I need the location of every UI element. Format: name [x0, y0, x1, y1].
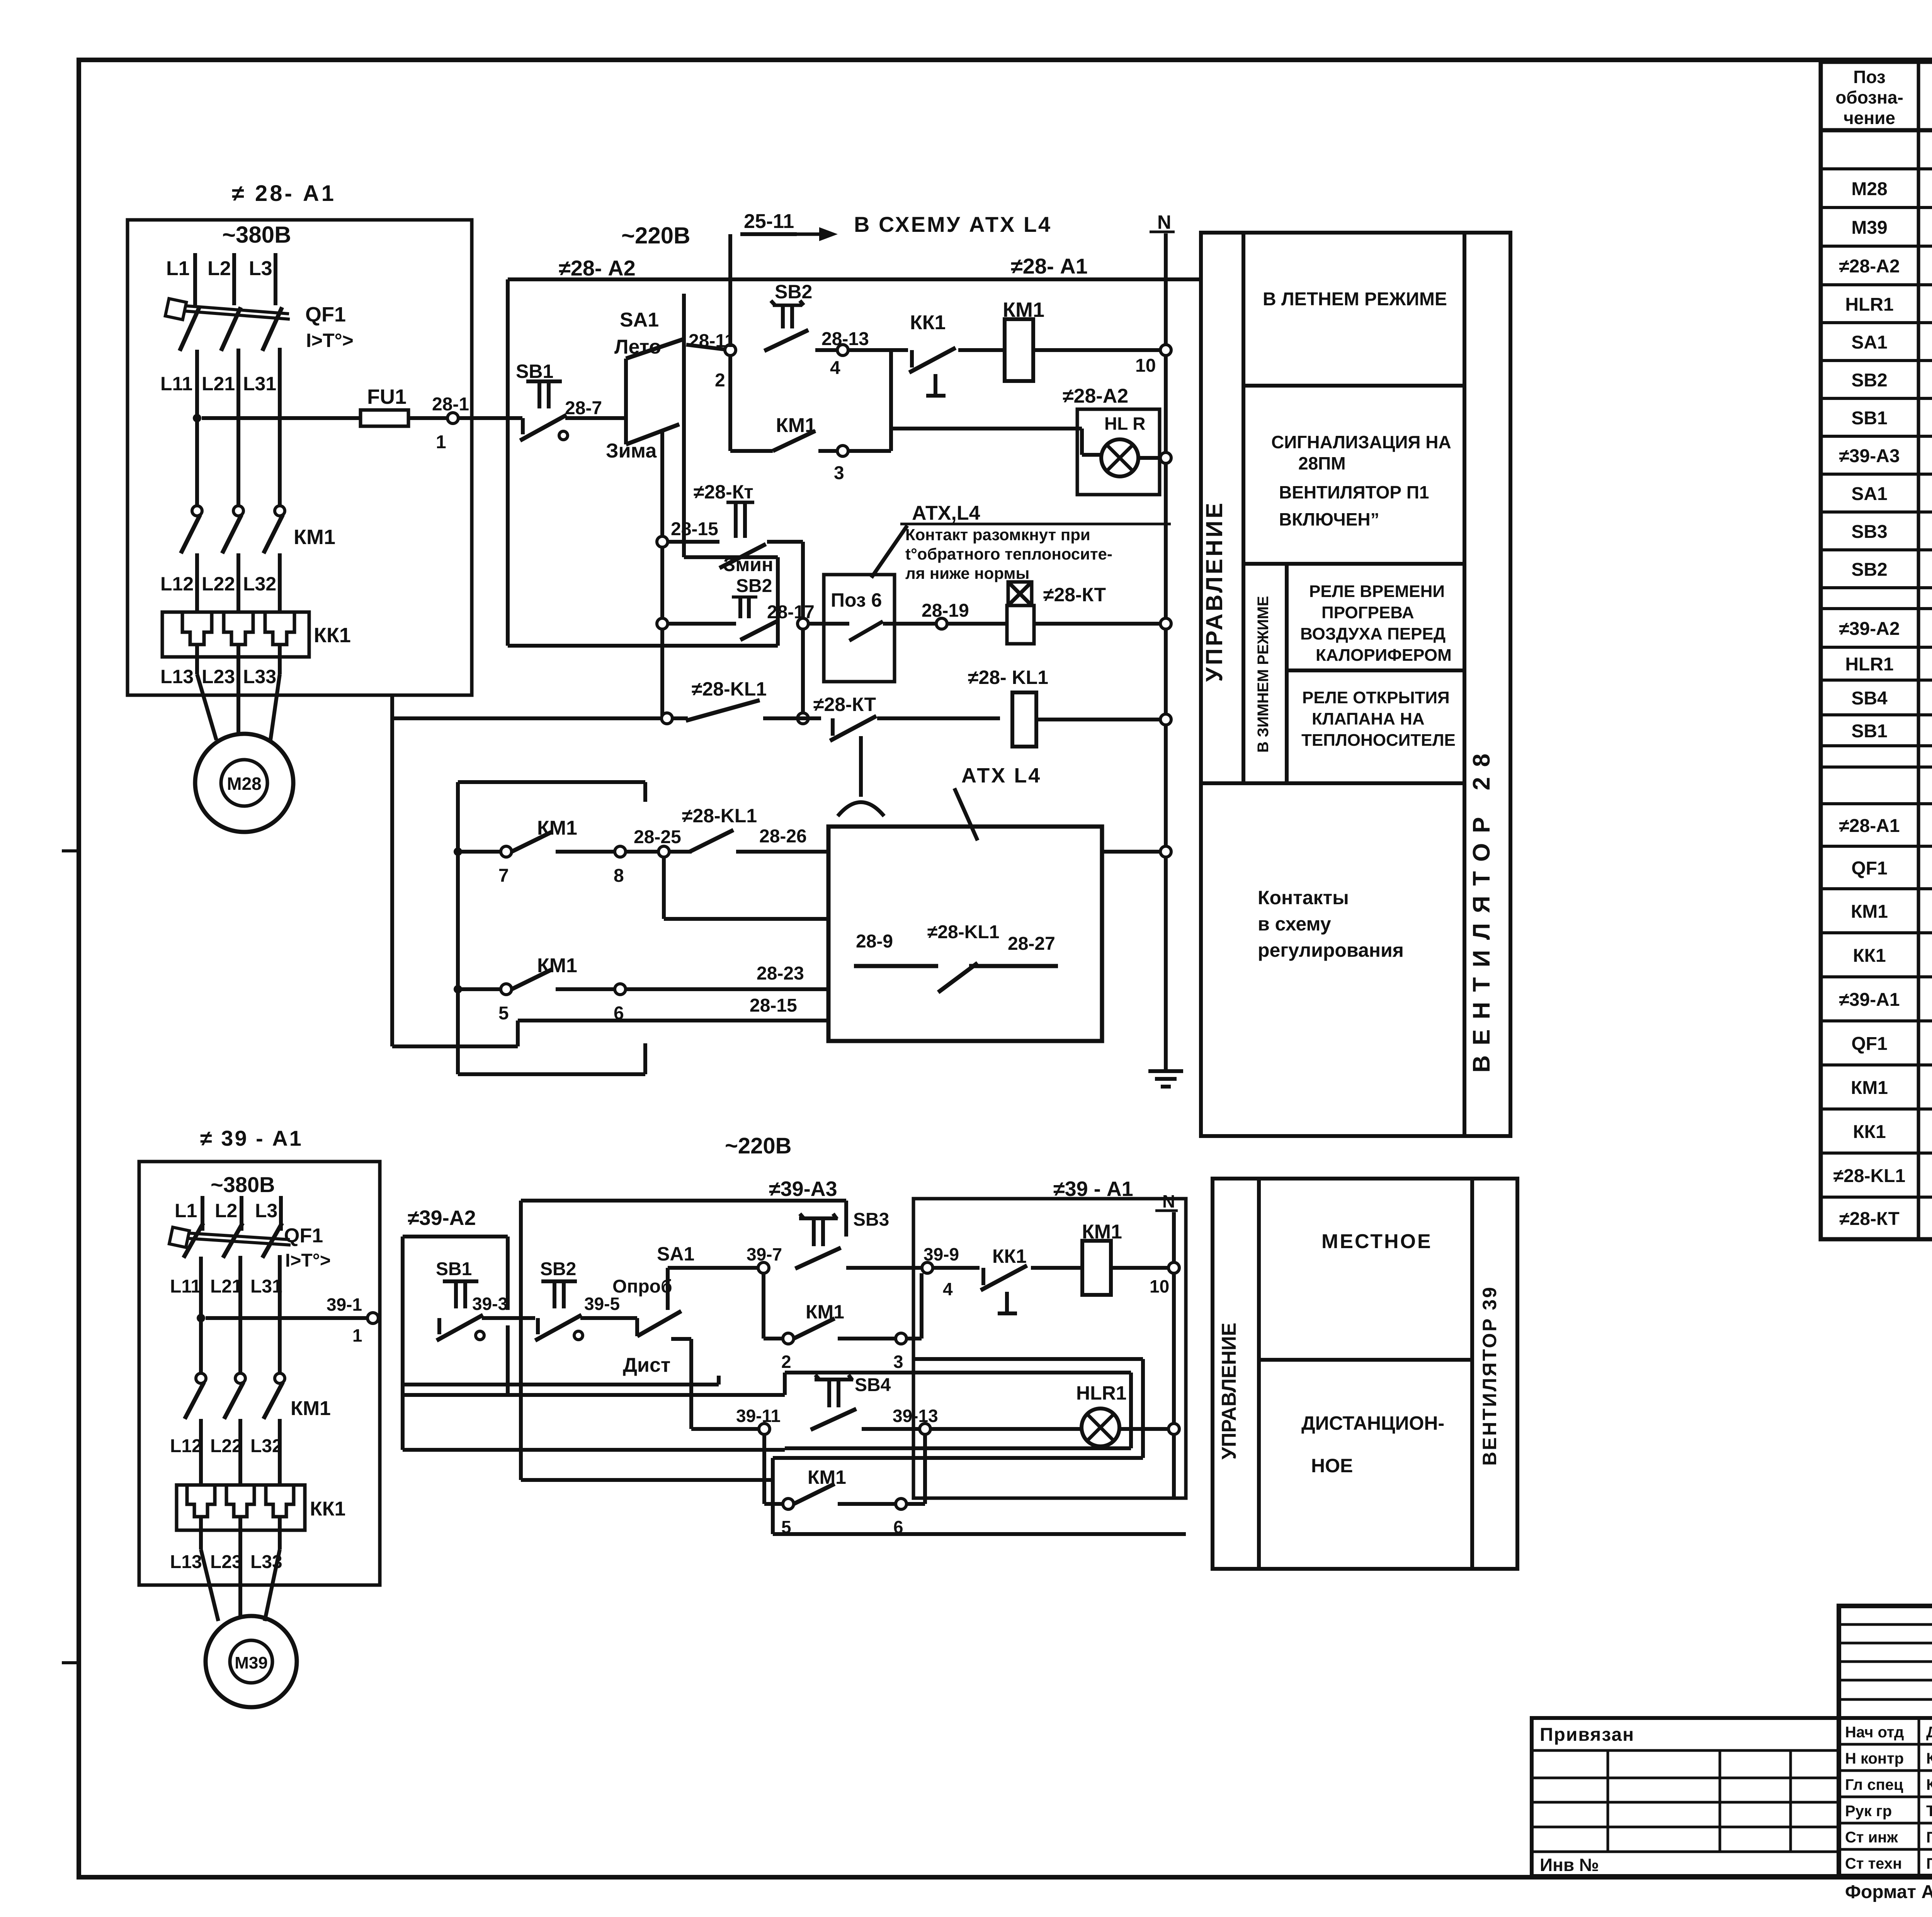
- svg-text:КК1: КК1: [310, 1498, 345, 1520]
- svg-text:ВЕНТИЛЯТОР 39: ВЕНТИЛЯТОР 39: [1479, 1286, 1500, 1466]
- motor M39: [201, 1530, 297, 1707]
- pushbutton SB4 start: [811, 1375, 939, 1430]
- thermal contact KK1 aux: [848, 311, 1005, 396]
- rail 39-11: [691, 1406, 781, 1434]
- svg-text:В СХЕМУ АТХ L4: В СХЕМУ АТХ L4: [854, 212, 1052, 236]
- label #39-A2: [408, 1206, 476, 1230]
- svg-text:КК1: КК1: [1853, 946, 1886, 966]
- svg-text:L11: L11: [160, 373, 192, 395]
- svg-text:≠28-KL1: ≠28-KL1: [682, 805, 757, 827]
- svg-text:L23: L23: [210, 1552, 242, 1572]
- note contact open text: [900, 524, 1171, 582]
- svg-text:28-15: 28-15: [750, 995, 797, 1016]
- svg-text:SB2: SB2: [736, 576, 772, 596]
- enclosure box #28-A1: [128, 220, 472, 695]
- svg-text:≠28-КТ: ≠28-КТ: [813, 694, 876, 715]
- svg-text:Ст инж: Ст инж: [1845, 1829, 1898, 1846]
- lamp box #28-A2: [1063, 385, 1160, 495]
- svg-text:КК1: КК1: [1853, 1122, 1886, 1142]
- svg-text:УПРАВЛЕНИЕ: УПРАВЛЕНИЕ: [1201, 501, 1227, 682]
- label #28-A1 control: [1011, 254, 1088, 278]
- svg-text:39-3: 39-3: [472, 1294, 508, 1314]
- N neutral line: [1164, 233, 1168, 1071]
- block label #28-A1: [232, 181, 336, 206]
- svg-text:28-13: 28-13: [821, 329, 869, 349]
- node 28 feed tap: [193, 414, 201, 422]
- svg-text:Рук гр: Рук гр: [1845, 1803, 1892, 1820]
- svg-text:М28: М28: [1851, 179, 1887, 199]
- svg-text:QF1: QF1: [1851, 858, 1887, 879]
- svg-text:М39: М39: [235, 1653, 268, 1672]
- selector SA1 Leto-Zima: [606, 309, 730, 542]
- svg-text:Ст техн: Ст техн: [1845, 1855, 1902, 1872]
- svg-text:Инв №: Инв №: [1540, 1855, 1599, 1875]
- svg-text:SA1: SA1: [620, 309, 659, 331]
- contact #28-KL1 in ATX: [854, 922, 1058, 992]
- svg-text:28-9: 28-9: [856, 931, 893, 952]
- svg-text:39-1: 39-1: [327, 1294, 362, 1315]
- svg-text:L11: L11: [170, 1276, 201, 1297]
- svg-text:SB2: SB2: [540, 1259, 576, 1279]
- svg-text:КК1: КК1: [910, 311, 946, 334]
- svg-text:≠39-А1: ≠39-А1: [1839, 990, 1900, 1010]
- svg-text:28ПМ: 28ПМ: [1298, 453, 1346, 473]
- title block grid: [1839, 1606, 1932, 1876]
- svg-text:чение: чение: [1844, 108, 1895, 128]
- svg-text:L22: L22: [210, 1436, 242, 1456]
- thermal contact KK1 lower: [933, 1245, 1082, 1313]
- aux box lower: [773, 1458, 1186, 1534]
- wire 28-25 drop: [664, 857, 828, 919]
- svg-text:≠28-А1: ≠28-А1: [1839, 816, 1900, 836]
- svg-text:РЕЛЕ ВРЕМЕНИ: РЕЛЕ ВРЕМЕНИ: [1309, 582, 1445, 601]
- svg-text:L12: L12: [160, 573, 194, 595]
- box #39-A2: [403, 1237, 785, 1450]
- svg-text:ВЕНТИЛЯТОР 28: ВЕНТИЛЯТОР 28: [1468, 743, 1495, 1073]
- svg-text:КМ1: КМ1: [294, 526, 335, 549]
- svg-text:≠28- KL1: ≠28- KL1: [968, 667, 1048, 688]
- svg-text:39-11: 39-11: [736, 1406, 781, 1426]
- svg-text:Н контр: Н контр: [1845, 1750, 1904, 1767]
- svg-text:Гл спец: Гл спец: [1845, 1776, 1903, 1793]
- svg-text:L1: L1: [166, 257, 190, 280]
- mode box ventilator 39: [1213, 1179, 1517, 1569]
- svg-text:Контакт разомкнут при: Контакт разомкнут при: [905, 526, 1090, 544]
- svg-text:28-23: 28-23: [757, 963, 804, 984]
- svg-text:І>T°>: І>T°>: [285, 1250, 331, 1271]
- svg-text:КМ1: КМ1: [1851, 902, 1888, 922]
- svg-text:SB2: SB2: [775, 281, 812, 303]
- node 39 feed tap: [197, 1314, 367, 1322]
- mode texts 39: [1218, 1230, 1500, 1476]
- pushbutton SB2 stop lower: [535, 1259, 629, 1340]
- svg-text:HL R: HL R: [1104, 413, 1146, 434]
- svg-text:HLR1: HLR1: [1845, 294, 1893, 315]
- node 39-13: [893, 1406, 938, 1434]
- svg-text:28-11: 28-11: [689, 331, 735, 351]
- svg-text:28-27: 28-27: [1008, 934, 1055, 954]
- svg-text:L13: L13: [170, 1552, 202, 1572]
- svg-text:39-7: 39-7: [747, 1244, 782, 1264]
- svg-text:Полшкова: Полшкова: [1926, 1829, 1932, 1846]
- contact KM1 selfhold lower: [764, 1273, 922, 1372]
- coil KM1 lower: [1082, 1221, 1168, 1295]
- svg-text:КЛАПАНА НА: КЛАПАНА НА: [1312, 709, 1425, 728]
- bus L1 L2 L3: [166, 253, 276, 305]
- svg-text:≠28-Кт: ≠28-Кт: [694, 481, 753, 503]
- svg-text:АТХ L4: АТХ L4: [961, 764, 1041, 787]
- box #39-A1 control: [913, 1199, 1186, 1498]
- attachment table left: [1532, 1718, 1839, 1876]
- pushbutton SB2 start: [764, 281, 812, 351]
- svg-text:Змин: Змин: [723, 554, 773, 575]
- node 28-19: [922, 600, 969, 629]
- wire 28-15 to ATX: [518, 995, 828, 1021]
- svg-text:обозна-: обозна-: [1835, 87, 1903, 107]
- svg-text:ТЕПЛОНОСИТЕЛЕ: ТЕПЛОНОСИТЕЛЕ: [1301, 731, 1456, 750]
- svg-text:SА1: SА1: [1851, 484, 1887, 504]
- svg-text:1: 1: [352, 1325, 362, 1345]
- svg-text:QF1: QF1: [284, 1225, 323, 1247]
- callout ATX L4: [871, 502, 980, 578]
- svg-text:10: 10: [1135, 356, 1156, 376]
- svg-text:28-15: 28-15: [671, 519, 718, 539]
- wire KM1 selfhold: [730, 356, 773, 451]
- svg-text:QF1: QF1: [1851, 1034, 1887, 1054]
- svg-text:≠28-КТ: ≠28-КТ: [1839, 1209, 1900, 1229]
- svg-text:Кудряшов: Кудряшов: [1926, 1776, 1932, 1793]
- svg-text:1: 1: [436, 432, 446, 452]
- svg-text:28-17: 28-17: [767, 602, 815, 623]
- table rows text: [1833, 139, 1932, 1229]
- svg-text:SB3: SB3: [853, 1209, 889, 1230]
- svg-text:L22: L22: [202, 573, 235, 595]
- svg-text:28-7: 28-7: [565, 398, 602, 418]
- svg-text:КК1: КК1: [992, 1245, 1027, 1267]
- svg-text:SВ1: SВ1: [1851, 721, 1887, 742]
- pushbutton SB1 stop: [516, 361, 626, 441]
- svg-text:КК1: КК1: [314, 624, 351, 647]
- time contact #28-KT nc: [813, 694, 1000, 816]
- rail 39-7: [668, 1244, 782, 1273]
- svg-text:SA1: SA1: [657, 1243, 694, 1265]
- table header text: [1835, 67, 1932, 128]
- contactor KM1 main lower: [185, 1373, 331, 1485]
- svg-text:L23: L23: [202, 666, 235, 687]
- svg-text:КМ1: КМ1: [808, 1466, 846, 1488]
- label #39-A1 control: [1053, 1177, 1133, 1201]
- motor M28: [195, 657, 293, 832]
- wire to signal lamp: [891, 429, 1102, 455]
- label ~220V upper: [621, 223, 690, 248]
- contactor KM1 main contacts: [181, 506, 335, 612]
- svg-text:КМ1: КМ1: [1851, 1078, 1888, 1098]
- contactor coil KM1: [1003, 298, 1160, 381]
- svg-text:УПРАВЛЕНИЕ: УПРАВЛЕНИЕ: [1218, 1323, 1240, 1459]
- node 10 lower: [1150, 1262, 1179, 1296]
- svg-text:2: 2: [781, 1352, 791, 1372]
- labels L13 L23 L33: [160, 666, 276, 687]
- label N lower: [1155, 1191, 1178, 1211]
- svg-text:КАЛОРИФЕРОМ: КАЛОРИФЕРОМ: [1316, 646, 1452, 665]
- signal lamp HLR1 lower: [930, 1382, 1179, 1446]
- svg-text:QF1: QF1: [305, 303, 346, 326]
- svg-text:8: 8: [614, 866, 624, 886]
- svg-text:L12: L12: [170, 1436, 202, 1456]
- svg-text:L32: L32: [250, 1436, 282, 1456]
- svg-text:FU1: FU1: [367, 385, 406, 408]
- labels L12 L22 L32 lower: [170, 1436, 282, 1456]
- labels L11 L21 L31: [160, 373, 276, 395]
- svg-text:L2: L2: [207, 257, 231, 280]
- N line lower: [1172, 1212, 1176, 1498]
- svg-text:НОЕ: НОЕ: [1311, 1455, 1353, 1476]
- svg-text:L3: L3: [255, 1200, 277, 1221]
- arrow 25-11 to ATX L4: [730, 210, 1052, 350]
- svg-text:≠39-А2: ≠39-А2: [1839, 619, 1900, 639]
- svg-text:39-13: 39-13: [893, 1406, 938, 1426]
- svg-text:L2: L2: [215, 1200, 237, 1221]
- svg-text:N: N: [1157, 211, 1171, 233]
- contact KM1 aux 5-6: [454, 954, 828, 1024]
- svg-text:~380В: ~380В: [222, 222, 291, 248]
- svg-text:Привязан: Привязан: [1540, 1725, 1634, 1745]
- svg-text:25-11: 25-11: [744, 210, 794, 233]
- svg-text:Формат А2: Формат А2: [1845, 1882, 1932, 1902]
- svg-text:в схему: в схему: [1258, 913, 1331, 935]
- svg-text:L21: L21: [210, 1276, 242, 1297]
- svg-text:МЕСТНОЕ: МЕСТНОЕ: [1321, 1230, 1432, 1253]
- svg-text:≠28-А2: ≠28-А2: [1063, 385, 1128, 407]
- position switch Poz 6: [808, 575, 936, 682]
- svg-text:Тарасова: Тарасова: [1926, 1803, 1932, 1820]
- label #28-A2 box: [559, 256, 636, 280]
- thermal relay KK1 lower: [177, 1485, 345, 1530]
- block label #39-A1: [200, 1126, 303, 1150]
- relay contact #28-KL1 no: [669, 805, 828, 852]
- svg-text:≠ 39 - А1: ≠ 39 - А1: [200, 1126, 303, 1150]
- wire 28-1 to SB1: [458, 416, 522, 420]
- svg-text:N: N: [1162, 1191, 1175, 1211]
- node 28-1: [432, 394, 469, 452]
- labels L13 L23 L33 lower: [170, 1552, 282, 1572]
- svg-text:3: 3: [834, 463, 844, 483]
- svg-text:HLR1: HLR1: [1845, 654, 1893, 675]
- node 39-1: [327, 1294, 378, 1345]
- svg-text:≠28- А1: ≠28- А1: [1011, 254, 1088, 278]
- svg-text:SВ3: SВ3: [1851, 522, 1887, 542]
- svg-text:Полякова: Полякова: [1926, 1855, 1932, 1872]
- svg-text:ДИСТАНЦИОН-: ДИСТАНЦИОН-: [1301, 1412, 1444, 1434]
- contact KM1 aux 5-6 lower: [764, 1434, 925, 1537]
- svg-text:Нач отд: Нач отд: [1845, 1724, 1904, 1741]
- svg-text:4: 4: [830, 358, 840, 378]
- footer texts: [1845, 1876, 1932, 1902]
- svg-text:М28: М28: [227, 774, 261, 794]
- wire ATX to N: [1102, 846, 1171, 857]
- svg-text:≠39-А3: ≠39-А3: [1839, 446, 1900, 466]
- enclosure box #39-A1: [139, 1162, 380, 1585]
- svg-text:Зима: Зима: [606, 440, 657, 462]
- svg-text:В ЛЕТНЕМ РЕЖИМЕ: В ЛЕТНЕМ РЕЖИМЕ: [1263, 289, 1447, 310]
- aux contact box: [458, 782, 645, 1074]
- svg-text:≠28-KL1: ≠28-KL1: [692, 678, 767, 700]
- svg-text:L33: L33: [243, 666, 276, 687]
- node 28-11: [689, 331, 736, 391]
- svg-text:t°обратного теплоносите-: t°обратного теплоносите-: [905, 545, 1112, 563]
- svg-text:ВЕНТИЛЯТОР П1: ВЕНТИЛЯТОР П1: [1279, 482, 1429, 502]
- svg-text:39-9: 39-9: [923, 1244, 959, 1264]
- svg-text:≠28-КТ: ≠28-КТ: [1043, 584, 1106, 606]
- circuit breaker QF1: [165, 299, 354, 351]
- svg-text:≠28-KL1: ≠28-KL1: [1833, 1166, 1905, 1186]
- svg-text:HLR1: HLR1: [1076, 1382, 1127, 1404]
- contact KM1 aux selfhold: [773, 350, 891, 483]
- svg-text:Поз: Поз: [1853, 67, 1885, 87]
- signal lamp HLR: [1101, 439, 1171, 476]
- svg-text:Поз 6: Поз 6: [831, 589, 882, 611]
- selector SA1 oprob-dist: [612, 1243, 694, 1429]
- node 39-9: [922, 1244, 959, 1299]
- svg-text:28-26: 28-26: [759, 826, 807, 847]
- svg-text:2: 2: [715, 370, 725, 391]
- svg-text:В ЗИМНЕМ РЕЖИМЕ: В ЗИМНЕМ РЕЖИМЕ: [1255, 596, 1272, 752]
- svg-text:SВ2: SВ2: [1851, 370, 1887, 391]
- box ATX L4: [828, 764, 1102, 1041]
- remote wires: [403, 1359, 1143, 1458]
- node 28-17: [767, 602, 815, 724]
- svg-text:L21: L21: [202, 373, 235, 395]
- svg-text:SВ1: SВ1: [1851, 408, 1887, 429]
- phase conductors: [197, 348, 280, 506]
- svg-text:L31: L31: [243, 373, 276, 395]
- svg-text:~220В: ~220В: [725, 1133, 792, 1158]
- svg-text:≠ 28- А1: ≠ 28- А1: [232, 181, 336, 206]
- svg-text:ВКЛЮЧЕН”: ВКЛЮЧЕН”: [1279, 509, 1379, 529]
- label ~380V lower: [211, 1172, 275, 1197]
- pushbutton SB2 pusk lower: [657, 547, 778, 716]
- control box outline: [508, 279, 1201, 646]
- svg-text:ВОЗДУХА ПЕРЕД: ВОЗДУХА ПЕРЕД: [1300, 624, 1446, 643]
- relay KL1 branch: [392, 678, 821, 724]
- time contact #28-Kt: [657, 481, 803, 618]
- svg-text:Кудряшов: Кудряшов: [1926, 1750, 1932, 1767]
- node 10 upper: [1135, 345, 1171, 376]
- svg-text:3: 3: [893, 1352, 903, 1372]
- svg-text:КМ1: КМ1: [291, 1397, 331, 1420]
- svg-text:L32: L32: [243, 573, 276, 595]
- svg-text:Дист: Дист: [623, 1354, 670, 1376]
- svg-text:Долотов: Долотов: [1926, 1724, 1932, 1741]
- svg-text:L1: L1: [175, 1200, 197, 1221]
- svg-text:≠28-KL1: ≠28-KL1: [927, 922, 999, 942]
- ground: [1148, 1048, 1183, 1087]
- thermal relay KK1: [162, 612, 351, 657]
- node 28-13: [815, 329, 869, 378]
- relay coil #28-KL1: [968, 667, 1171, 747]
- fuse FU1: [202, 385, 448, 426]
- svg-text:~220В: ~220В: [621, 223, 690, 248]
- svg-text:≠28- А2: ≠28- А2: [559, 256, 636, 280]
- svg-text:28-25: 28-25: [634, 827, 681, 847]
- pushbutton SB1 stop lower: [436, 1259, 535, 1340]
- mode box ventilator 28: [1201, 233, 1510, 1136]
- svg-text:~380В: ~380В: [211, 1172, 275, 1197]
- svg-text:10: 10: [1150, 1276, 1169, 1296]
- svg-text:регулирования: регулирования: [1258, 939, 1404, 961]
- node 28-25: [634, 827, 681, 857]
- time relay coil #28-KT: [947, 582, 1171, 644]
- component table grid: [1821, 62, 1932, 1239]
- svg-text:ля ниже нормы: ля ниже нормы: [905, 564, 1029, 582]
- svg-text:L3: L3: [249, 257, 272, 280]
- svg-text:М39: М39: [1851, 218, 1887, 238]
- label ~220V lower: [725, 1133, 792, 1158]
- pushbutton SB3 start: [795, 1209, 922, 1269]
- svg-text:SB1: SB1: [516, 361, 553, 382]
- title texts: [1540, 1621, 1932, 1875]
- bus L1 L2 L3 lower: [175, 1196, 281, 1231]
- svg-text:SB4: SB4: [855, 1375, 891, 1395]
- svg-text:≠39-А3: ≠39-А3: [769, 1177, 837, 1201]
- svg-text:І>T°>: І>T°>: [306, 330, 354, 351]
- svg-text:РЕЛЕ ОТКРЫТИЯ: РЕЛЕ ОТКРЫТИЯ: [1302, 688, 1450, 707]
- svg-text:5: 5: [498, 1003, 509, 1024]
- svg-text:SB1: SB1: [436, 1259, 472, 1279]
- label #39-A3: [769, 1177, 837, 1201]
- svg-text:АТХ,L4: АТХ,L4: [912, 502, 980, 524]
- svg-text:Опроб: Опроб: [612, 1276, 672, 1297]
- svg-text:СИГНАЛИЗАЦИЯ НА: СИГНАЛИЗАЦИЯ НА: [1271, 432, 1451, 452]
- svg-text:≠39-А2: ≠39-А2: [408, 1206, 476, 1230]
- labels L11 L21 L31 lower: [170, 1276, 282, 1297]
- circuit breaker QF1 lower: [169, 1223, 331, 1271]
- svg-text:SВ4: SВ4: [1851, 688, 1888, 709]
- svg-text:28-1: 28-1: [432, 394, 469, 415]
- labels L12 L22 L32: [160, 573, 276, 595]
- svg-text:≠28-А2: ≠28-А2: [1839, 256, 1900, 277]
- svg-text:SА1: SА1: [1851, 332, 1887, 353]
- contact KM1 aux 7-8: [454, 817, 658, 886]
- mode texts 28: [1201, 289, 1495, 1073]
- svg-text:28-19: 28-19: [922, 600, 969, 621]
- svg-text:Контакты: Контакты: [1258, 887, 1349, 908]
- svg-text:ПРОГРЕВА: ПРОГРЕВА: [1321, 603, 1414, 622]
- svg-text:7: 7: [498, 866, 509, 886]
- box #39-A3: [521, 1201, 846, 1480]
- svg-text:L13: L13: [160, 666, 194, 687]
- label N: [1150, 211, 1175, 233]
- svg-text:L31: L31: [250, 1276, 282, 1297]
- svg-text:4: 4: [943, 1279, 953, 1299]
- phase conductors lower: [201, 1255, 280, 1374]
- svg-text:КМ1: КМ1: [806, 1301, 844, 1323]
- svg-text:SВ2: SВ2: [1851, 560, 1887, 580]
- label ~380V: [222, 222, 291, 248]
- wire left drop: [392, 695, 518, 1046]
